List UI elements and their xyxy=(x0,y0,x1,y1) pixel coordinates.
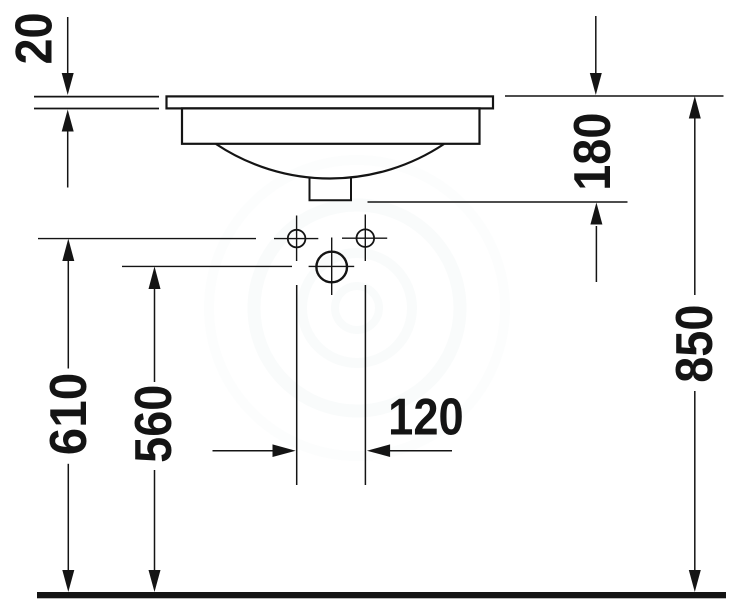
right circle crosshair horizontal xyxy=(342,237,387,239)
120 reference vertical line B xyxy=(364,285,366,485)
ground line xyxy=(37,592,726,598)
svg-text:120: 120 xyxy=(388,389,463,447)
dim 850 line upper segment with up arrow xyxy=(689,96,701,119)
faucet hole right circle xyxy=(357,229,375,247)
countertop slab xyxy=(167,96,494,108)
120 reference vertical line A xyxy=(296,285,298,485)
dim 180 lower arrow xyxy=(595,226,597,282)
big circle crosshair horizontal + extension to 560 line xyxy=(122,265,292,267)
dim 610 line with top arrow xyxy=(62,239,74,261)
left circle crosshair vertical xyxy=(296,216,298,262)
svg-text:180: 180 xyxy=(564,113,622,191)
dim 610 bottom arrow xyxy=(62,570,74,592)
countertop extension lines left xyxy=(34,96,159,98)
dim 20 upper arrow xyxy=(67,17,69,74)
basin bowl arc xyxy=(216,144,444,178)
left circle crosshair horizontal + extension to 610 line xyxy=(38,238,256,240)
extension line mid (180 lower ref) xyxy=(368,201,628,203)
svg-text:20: 20 xyxy=(5,12,63,64)
dim 850 line lower segment with down arrow xyxy=(694,391,696,570)
center mixer hole big circle xyxy=(316,252,347,283)
dim 20 lower arrow xyxy=(67,131,69,188)
drain outlet xyxy=(310,178,352,201)
extension line top right (counter top level) xyxy=(505,95,724,97)
svg-text:850: 850 xyxy=(666,305,724,383)
dim 560 line with top arrow xyxy=(149,266,161,289)
svg-text:610: 610 xyxy=(39,373,97,455)
dim 560 bottom arrow xyxy=(149,570,161,592)
watermark rings xyxy=(209,160,505,456)
faucet hole left circle xyxy=(288,230,306,248)
big circle crosshair vertical xyxy=(331,238,333,296)
basin rim box xyxy=(182,108,480,143)
dim 180 upper arrow xyxy=(595,16,597,73)
svg-text:560: 560 xyxy=(125,385,183,463)
dim 120 right arrow pointing left xyxy=(367,444,390,457)
dim 120 left arrow pointing right xyxy=(213,450,274,452)
right circle crosshair vertical xyxy=(364,215,366,262)
